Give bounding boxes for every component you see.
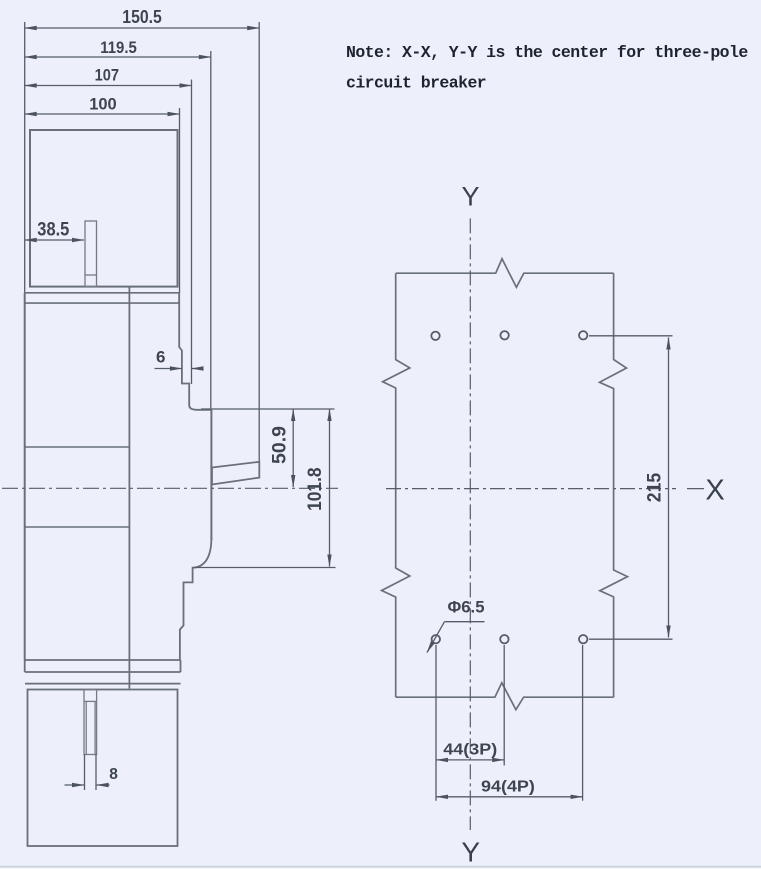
body right profile upper [179, 293, 211, 410]
hole bottom right [579, 635, 587, 643]
extension line top for 50.9/101.8 [201, 408, 335, 410]
plate top edge with break [396, 259, 614, 288]
mounting flange band upper [25, 293, 180, 303]
dimension 50.9 [292, 409, 294, 487]
terminal screw bar top [85, 221, 97, 287]
centerline X right view [386, 488, 704, 490]
body right profile lower [180, 538, 212, 660]
dimension 101.8 [329, 409, 331, 567]
dimension 119.5 [25, 51, 211, 409]
extension line bottom for 101.8 [194, 567, 336, 569]
svg-text:50.9: 50.9 [270, 426, 291, 464]
label Y top [461, 182, 479, 212]
svg-text:Y: Y [461, 182, 479, 212]
svg-text:107: 107 [95, 66, 119, 85]
plate bottom edge with break [396, 683, 614, 710]
svg-text:circuit breaker: circuit breaker [346, 74, 486, 93]
plate left edge with breaks [382, 273, 410, 697]
svg-text:100: 100 [89, 94, 117, 113]
centerline X left view [2, 487, 338, 489]
svg-text:Note: X-X, Y-Y is the center f: Note: X-X, Y-Y is the center for three-p… [346, 43, 748, 62]
svg-text:8: 8 [109, 766, 118, 783]
svg-text:150.5: 150.5 [122, 7, 162, 27]
body inner vertical [128, 287, 130, 689]
hole top middle [500, 331, 508, 339]
dimension 6 [155, 368, 203, 370]
svg-text:101.8: 101.8 [305, 467, 326, 511]
svg-text:44(3P): 44(3P) [443, 742, 497, 759]
svg-text:6: 6 [156, 348, 165, 367]
front plate face [210, 410, 212, 540]
svg-text:215: 215 [645, 473, 666, 503]
body step line lower [25, 526, 130, 528]
dimension 38.5 [25, 239, 84, 241]
svg-text:119.5: 119.5 [100, 38, 137, 57]
hole top left [431, 332, 439, 340]
toggle handle [212, 462, 259, 485]
label Y bottom [461, 837, 480, 868]
breaker bottom box [28, 690, 178, 847]
label diameter 6.5 with leader [427, 622, 485, 653]
dimension 8 [65, 755, 110, 791]
hole bottom left [432, 635, 440, 643]
bottom separator line [0, 866, 761, 869]
body step line upper [25, 446, 130, 448]
body left edge [24, 293, 26, 660]
dimension 107 [25, 80, 192, 385]
label X [705, 475, 724, 507]
svg-text:Φ6.5: Φ6.5 [448, 599, 485, 617]
hole top right [579, 331, 587, 339]
note text [346, 43, 748, 93]
dimension 215 [589, 336, 673, 639]
dimension 100 [25, 108, 180, 293]
terminal screw bar bottom [84, 690, 97, 755]
svg-text:94(4P): 94(4P) [481, 779, 535, 796]
svg-text:Y: Y [461, 837, 480, 868]
svg-text:38.5: 38.5 [37, 219, 69, 240]
centerline Y [469, 218, 471, 830]
breaker top terminal box [30, 130, 178, 287]
dimension 150.5 [25, 22, 260, 462]
plate right edge with breaks [600, 273, 628, 697]
dimension 44(3P) [436, 645, 504, 801]
svg-text:X: X [705, 475, 724, 507]
hole bottom middle [500, 635, 508, 643]
dimension 94(4P) [436, 645, 583, 801]
mounting flange band lower [25, 660, 181, 684]
